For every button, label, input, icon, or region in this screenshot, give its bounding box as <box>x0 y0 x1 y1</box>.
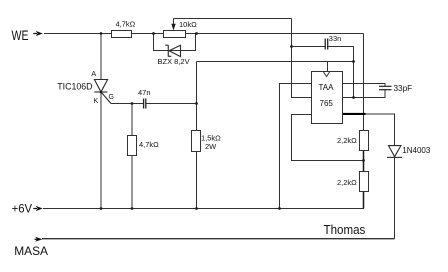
diode 1N4003 <box>387 146 402 158</box>
wire thyristor cathode to +6V <box>100 92 102 209</box>
wire TAA pin3 right thick <box>343 113 366 115</box>
node pot right <box>195 32 198 35</box>
svg-text:MASA: MASA <box>14 244 49 258</box>
wire +6V rail <box>43 192 364 209</box>
wire 1,5k vertical branch <box>196 62 198 209</box>
wire TAA top stub <box>327 62 329 72</box>
svg-text:47n: 47n <box>138 88 151 97</box>
capacitor 33pF <box>379 86 392 89</box>
node 33n tap <box>290 45 293 48</box>
wire 33n row <box>292 46 325 48</box>
wire gate row 47n right <box>146 103 196 105</box>
resistor 4,7kOhm vertical <box>128 136 137 156</box>
wire WE main horizontal <box>44 33 364 35</box>
wire 33n right to vertical <box>328 47 353 98</box>
node zener left <box>152 32 155 35</box>
svg-text:4,7kΩ: 4,7kΩ <box>139 140 159 149</box>
resistor 2,2kOhm upper <box>360 131 369 151</box>
wire MASA rail <box>42 238 395 240</box>
resistor 4,7kOhm horizontal <box>112 31 132 38</box>
svg-text:33pF: 33pF <box>394 84 413 93</box>
svg-text:TIC106D: TIC106D <box>57 81 92 91</box>
zener diode BZX 8,2V <box>165 45 180 57</box>
potentiometer 10kOhm <box>164 31 186 38</box>
node gate-4,7k <box>131 102 134 105</box>
wire divider chain lower <box>363 151 365 172</box>
svg-text:TAA: TAA <box>319 83 335 92</box>
resistor 1,5kOhm 2W <box>192 131 201 152</box>
node +6V 4,7k <box>131 207 134 210</box>
wire vertical pot-top to pin2 <box>292 19 312 98</box>
svg-text:G: G <box>109 94 114 101</box>
capacitor 33n <box>325 39 328 50</box>
svg-text:1N4003: 1N4003 <box>402 146 431 155</box>
svg-text:33n: 33n <box>329 34 342 43</box>
svg-text:4,7kΩ: 4,7kΩ <box>116 20 136 29</box>
svg-text:2,2kΩ: 2,2kΩ <box>337 136 357 145</box>
node 33n-pin2 <box>352 96 355 99</box>
svg-text:2W: 2W <box>205 142 217 151</box>
resistor 2,2kOhm lower <box>360 172 369 192</box>
node +6V 1,5k <box>195 207 198 210</box>
op-amp U1 TAA765 box <box>312 72 343 124</box>
node +6V thyristor <box>100 207 103 210</box>
svg-text:BZX 8,2V: BZX 8,2V <box>158 57 190 66</box>
capacitor 47n <box>144 99 146 109</box>
wire TAA pin1 right to 33pF top <box>343 84 386 87</box>
wire thyristor anode <box>100 34 102 80</box>
node thyristor-WE <box>100 32 103 35</box>
svg-text:WE: WE <box>12 27 29 43</box>
svg-text:Thomas: Thomas <box>324 222 366 237</box>
wire diode to MASA <box>394 157 396 238</box>
wire node row to TAA top <box>197 61 354 63</box>
node divider mid <box>362 159 365 162</box>
wire pot wiper top <box>174 18 292 20</box>
svg-text:K: K <box>94 98 99 105</box>
wire diode 1N4003 branch <box>366 114 395 146</box>
wire TAA pin2 right to 33pF bottom <box>343 90 386 98</box>
wire zener loop <box>154 34 196 51</box>
svg-text:2,2kΩ: 2,2kΩ <box>337 178 357 187</box>
wire main vertical right <box>363 34 365 131</box>
node +6V pin1 <box>278 207 281 210</box>
wire TAA pin3 left to divider <box>292 115 364 161</box>
svg-text:A: A <box>91 69 96 78</box>
wire TAA pin1 left to +6V <box>280 84 312 209</box>
svg-text:765: 765 <box>320 99 334 108</box>
wire 4,7k vertical branch <box>131 104 133 209</box>
thyristor TIC106D <box>94 80 111 104</box>
node gate-1,5k <box>195 102 198 105</box>
node 33n-TAAtop <box>352 60 355 63</box>
svg-text:+6V: +6V <box>12 203 33 215</box>
svg-text:10kΩ: 10kΩ <box>179 20 197 29</box>
wire gate row 47n left <box>111 103 143 105</box>
node thyristor apex <box>100 91 103 94</box>
